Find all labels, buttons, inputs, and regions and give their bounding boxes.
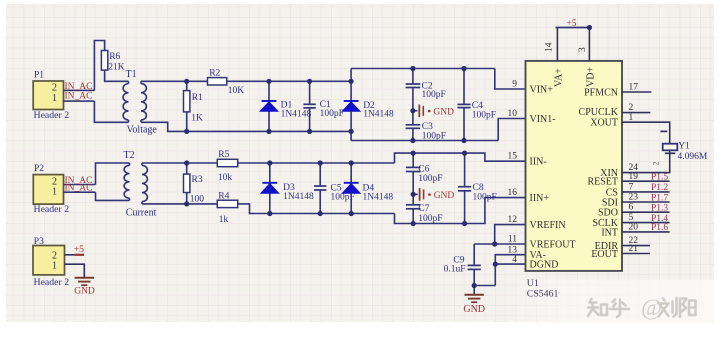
svg-text:100pF: 100pF	[472, 110, 496, 120]
svg-text:T1: T1	[126, 69, 137, 80]
svg-text:+5: +5	[74, 245, 84, 255]
svg-text:1N4148: 1N4148	[363, 193, 394, 203]
svg-text:7: 7	[629, 182, 634, 192]
svg-text:10K: 10K	[228, 86, 245, 96]
svg-text:9: 9	[512, 80, 517, 90]
svg-text:11: 11	[508, 235, 517, 245]
svg-text:R4: R4	[218, 191, 229, 201]
svg-text:P3: P3	[34, 237, 44, 247]
svg-text:100pF: 100pF	[418, 174, 442, 184]
svg-text:SDO: SDO	[598, 208, 618, 219]
svg-text:1K: 1K	[191, 114, 203, 124]
svg-text:Header 2: Header 2	[34, 277, 70, 288]
svg-text:4: 4	[512, 255, 517, 265]
svg-text:3: 3	[578, 47, 588, 52]
svg-text:100pF: 100pF	[422, 131, 446, 141]
svg-text:Current: Current	[126, 207, 157, 218]
svg-text:0.1uF: 0.1uF	[444, 265, 466, 275]
svg-text:IIN-: IIN-	[530, 157, 547, 168]
svg-text:14: 14	[545, 42, 555, 52]
svg-text:Header 2: Header 2	[34, 110, 70, 121]
svg-text:1k: 1k	[219, 215, 229, 225]
svg-text:+5: +5	[566, 19, 576, 29]
svg-text:IN_AC: IN_AC	[65, 82, 93, 92]
svg-text:1N4148: 1N4148	[281, 109, 312, 119]
svg-text:1: 1	[629, 113, 634, 123]
svg-text:2: 2	[652, 162, 661, 166]
svg-text:Header 2: Header 2	[34, 204, 70, 215]
svg-text:10: 10	[508, 109, 518, 119]
svg-text:16: 16	[508, 188, 518, 198]
svg-text:23: 23	[629, 193, 639, 203]
svg-text:VA+: VA+	[553, 68, 564, 87]
svg-text:VIN+: VIN+	[530, 85, 554, 96]
svg-text:1: 1	[52, 93, 57, 104]
svg-text:GND: GND	[463, 304, 485, 315]
svg-text:2: 2	[629, 103, 634, 113]
svg-text:20: 20	[629, 222, 639, 232]
svg-text:4.096M: 4.096M	[678, 152, 708, 162]
svg-text:15: 15	[508, 152, 518, 162]
svg-text:VREFIN: VREFIN	[530, 220, 566, 231]
svg-text:IN_AC: IN_AC	[65, 184, 93, 194]
svg-text:1N4148: 1N4148	[283, 192, 314, 202]
svg-text:1: 1	[52, 260, 57, 271]
svg-text:P2: P2	[34, 164, 44, 174]
svg-text:21K: 21K	[108, 63, 125, 73]
svg-text:GND: GND	[433, 107, 454, 117]
svg-text:R5: R5	[218, 150, 229, 160]
svg-text:RESET: RESET	[587, 177, 618, 188]
svg-text:Y1: Y1	[678, 141, 690, 151]
svg-text:CPUCLK: CPUCLK	[579, 107, 619, 118]
svg-text:100pF: 100pF	[473, 193, 497, 203]
svg-text:PFMCN: PFMCN	[584, 87, 618, 98]
svg-text:XOUT: XOUT	[590, 118, 618, 129]
svg-text:6: 6	[629, 203, 634, 213]
svg-text:C3: C3	[422, 122, 433, 132]
svg-text:VREFOUT: VREFOUT	[530, 240, 576, 251]
svg-text:100: 100	[190, 194, 205, 204]
svg-text:T2: T2	[124, 150, 135, 161]
svg-text:12: 12	[508, 215, 518, 225]
svg-text:C7: C7	[418, 204, 429, 214]
svg-text:R6: R6	[109, 52, 120, 62]
svg-text:1N4148: 1N4148	[363, 110, 394, 120]
svg-text:17: 17	[629, 83, 639, 93]
svg-text:EOUT: EOUT	[591, 249, 618, 260]
svg-text:VD+: VD+	[585, 67, 596, 87]
svg-text:R1: R1	[192, 93, 203, 103]
svg-text:IIN+: IIN+	[530, 193, 550, 204]
svg-text:100pF: 100pF	[320, 109, 344, 119]
svg-text:DGND: DGND	[530, 260, 559, 271]
svg-text:Voltage: Voltage	[127, 125, 158, 136]
svg-text:VIN1-: VIN1-	[530, 114, 556, 125]
svg-text:1: 1	[52, 187, 57, 198]
svg-text:C8: C8	[473, 183, 484, 193]
svg-text:R2: R2	[209, 68, 220, 78]
svg-text:GND: GND	[74, 287, 95, 297]
svg-text:100pF: 100pF	[422, 90, 446, 100]
svg-text:C6: C6	[418, 164, 429, 174]
svg-text:GND: GND	[434, 191, 455, 201]
svg-text:10k: 10k	[218, 173, 233, 183]
svg-text:C4: C4	[472, 101, 483, 111]
svg-text:2: 2	[52, 82, 57, 93]
svg-text:CS5461: CS5461	[527, 288, 559, 299]
svg-text:U1: U1	[527, 278, 539, 289]
svg-text:IN_AC: IN_AC	[65, 92, 93, 102]
svg-text:INT: INT	[601, 227, 618, 238]
svg-text:R3: R3	[192, 175, 203, 185]
svg-text:P1: P1	[34, 70, 44, 80]
svg-text:100pF: 100pF	[418, 214, 442, 224]
